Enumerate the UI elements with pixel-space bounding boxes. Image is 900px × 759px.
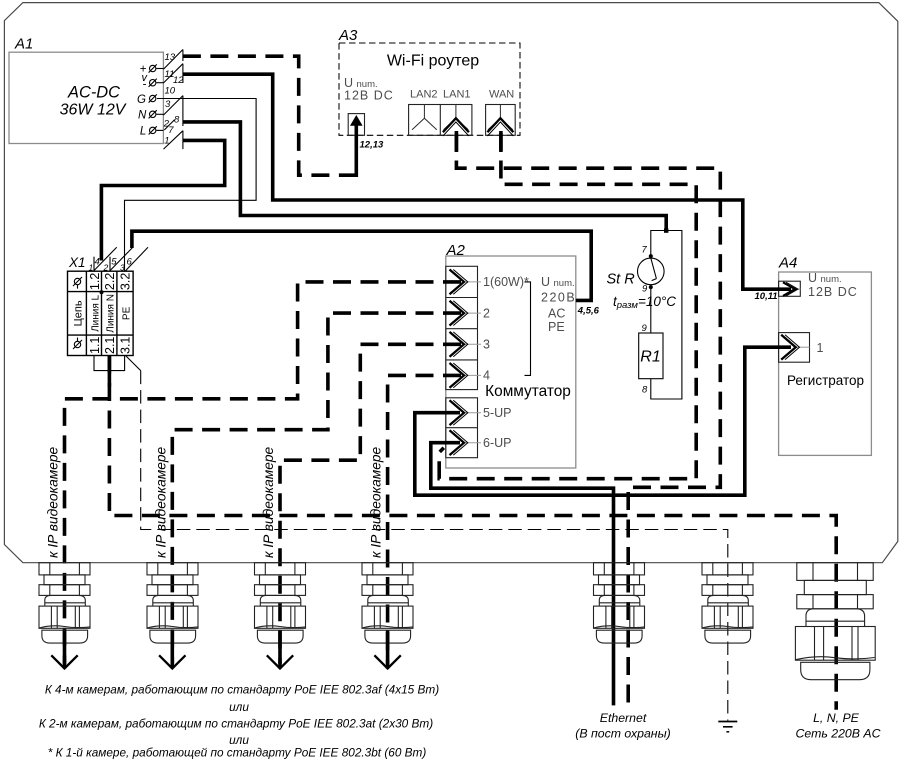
svg-text:A2: A2 [446,242,466,259]
svg-text:X1: X1 [68,255,86,270]
svg-text:8: 8 [642,385,648,396]
svg-text:Цепь: Цепь [73,300,85,326]
svg-text:LAN2: LAN2 [410,89,438,101]
svg-text:LAN1: LAN1 [443,89,471,101]
svg-text:L: L [140,126,146,138]
svg-text:AC: AC [548,307,565,321]
svg-text:Линия L: Линия L [91,294,102,331]
svg-text:2.1: 2.1 [103,337,117,354]
svg-text:U num.: U num. [541,275,575,289]
svg-text:13: 13 [165,52,176,63]
svg-text:Коммутатор: Коммутатор [485,383,571,400]
svg-text:3: 3 [120,263,125,273]
svg-text:7: 7 [642,245,648,256]
svg-text:4: 4 [483,369,490,383]
svg-text:2: 2 [103,262,109,272]
svg-text:6-UP: 6-UP [483,436,511,450]
svg-text:G: G [137,94,146,106]
svg-text:12В DC: 12В DC [808,285,858,299]
svg-text:12: 12 [173,75,184,86]
svg-text:9: 9 [642,323,648,334]
svg-text:AC-DC: AC-DC [67,84,120,102]
svg-text:4: 4 [95,256,100,267]
svg-text:5-UP: 5-UP [483,406,511,420]
svg-text:1(60W)*: 1(60W)* [483,275,529,289]
svg-text:N: N [138,110,147,122]
svg-text:1: 1 [817,341,824,355]
svg-text:A1: A1 [14,36,33,53]
svg-text:9: 9 [642,284,648,295]
svg-text:(В пост охраны): (В пост охраны) [575,727,670,741]
svg-text:R1: R1 [640,349,660,366]
svg-text:-: - [143,79,147,91]
svg-text:10,11: 10,11 [755,291,778,302]
svg-text:3.1: 3.1 [118,337,132,354]
svg-text:* К 1-й камере, работающей по: * К 1-й камере, работающей по стандарту … [48,746,427,759]
svg-text:5: 5 [111,256,117,267]
svg-text:WAN: WAN [489,89,514,101]
svg-text:Линия N: Линия N [106,294,117,333]
svg-text:К 2-м камерам, работающим по с: К 2-м камерам, работающим по стандарту P… [39,717,433,731]
svg-text:к IP видеокамере: к IP видеокамере [261,446,276,558]
svg-text:A3: A3 [338,27,358,44]
svg-text:Регистратор: Регистратор [787,373,864,388]
svg-text:к IP видеокамере: к IP видеокамере [46,446,61,558]
svg-text:к IP видеокамере: к IP видеокамере [369,446,384,558]
svg-text:10: 10 [165,86,176,97]
svg-text:3: 3 [165,99,171,110]
svg-text:L, N, PE: L, N, PE [813,711,860,725]
svg-text:Ethernet: Ethernet [600,711,647,725]
svg-text:PE: PE [548,320,565,334]
svg-text:1: 1 [164,135,169,146]
svg-text:К 4-м камерам, работающим по: К 4-м камерам, работающим по стандарту P… [45,683,439,697]
svg-text:1.1: 1.1 [88,337,102,354]
svg-text:2.2: 2.2 [103,273,117,290]
svg-text:к IP видеокамере: к IP видеокамере [154,446,169,558]
svg-text:12В DC: 12В DC [344,89,394,103]
svg-text:36W 12V: 36W 12V [60,102,127,119]
svg-text:St R: St R [607,272,636,288]
svg-text:U num.: U num. [808,271,842,285]
svg-text:6: 6 [127,257,133,268]
svg-text:3.2: 3.2 [118,273,132,290]
svg-text:220В: 220В [541,291,576,305]
svg-text:2: 2 [483,306,490,320]
svg-text:8: 8 [174,115,180,126]
svg-text:Wi-Fi роутер: Wi-Fi роутер [387,53,479,70]
svg-text:1: 1 [89,262,94,272]
svg-text:3: 3 [483,338,490,352]
svg-text:A4: A4 [778,255,797,272]
svg-text:12,13: 12,13 [360,140,384,151]
svg-text:Сеть 220В AC: Сеть 220В AC [796,727,881,741]
svg-text:PE: PE [122,306,133,320]
svg-text:4,5,6: 4,5,6 [577,305,600,316]
svg-text:1.2: 1.2 [88,273,102,290]
svg-text:или: или [229,700,249,714]
